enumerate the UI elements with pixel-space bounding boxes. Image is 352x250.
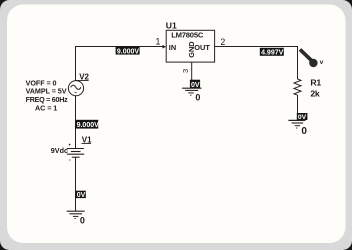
svg-text:IN: IN [169, 43, 176, 52]
op-amp U1 box LM7805C [166, 30, 214, 62]
wire R1 to right ground [297, 95, 299, 120]
svg-text:R1: R1 [310, 78, 321, 88]
bias label 9.000V on top wire [116, 46, 140, 55]
ground right (node 0) [288, 120, 305, 128]
svg-text:1: 1 [156, 37, 161, 47]
svg-text:2: 2 [220, 37, 225, 47]
bias label 0V at U1 pin3 [190, 80, 200, 89]
wire U1 pin3 to middle ground [191, 62, 193, 88]
bias label 0V on left lower wire [76, 191, 86, 199]
bias label 9.000V on left wire [75, 120, 99, 129]
svg-text:v: v [320, 59, 324, 66]
svg-text:U1: U1 [166, 20, 177, 30]
svg-text:0V: 0V [77, 192, 86, 199]
wire vertical top to V2 [75, 46, 77, 81]
V2 minus mark [75, 92, 77, 94]
V2 sine wave [71, 85, 81, 89]
pin 1 arrowhead [162, 45, 166, 49]
svg-text:9Vdc: 9Vdc [51, 146, 68, 155]
svg-text:2k: 2k [310, 89, 319, 99]
svg-text:9.000V: 9.000V [77, 122, 100, 129]
voltage probe marker [300, 49, 324, 67]
wire right vertical to R1 [297, 46, 299, 79]
svg-text:9.000V: 9.000V [117, 48, 140, 55]
svg-text:4.997V: 4.997V [261, 50, 284, 57]
battery V1 [67, 144, 84, 160]
ground left (node 0) [67, 211, 85, 218]
ground middle (node 0) [182, 88, 201, 95]
wire V2 bottom to battery V1 [75, 96, 77, 149]
svg-text:3: 3 [181, 69, 190, 73]
svg-text:0: 0 [80, 215, 85, 225]
svg-text:AC = 1: AC = 1 [35, 103, 57, 112]
svg-text:OUT: OUT [194, 43, 210, 52]
wire top horizontal V2 to U1 pin1 [75, 46, 163, 48]
bias label 0V on right wire [297, 113, 308, 121]
V2 refdes underline [75, 80, 88, 82]
svg-text:0: 0 [301, 126, 307, 137]
resistor R1 zigzag [294, 79, 301, 95]
svg-text:0: 0 [195, 93, 200, 103]
svg-text:GND: GND [187, 41, 196, 58]
svg-text:LM7805C: LM7805C [171, 30, 204, 39]
wire battery to left ground [75, 157, 77, 211]
V1 refdes underline [82, 143, 92, 145]
bias label 4.997V on output wire [260, 48, 284, 57]
wire U1 pin2 to right corner [215, 46, 298, 48]
source V2 circle [68, 81, 83, 96]
svg-text:V1: V1 [82, 135, 92, 144]
